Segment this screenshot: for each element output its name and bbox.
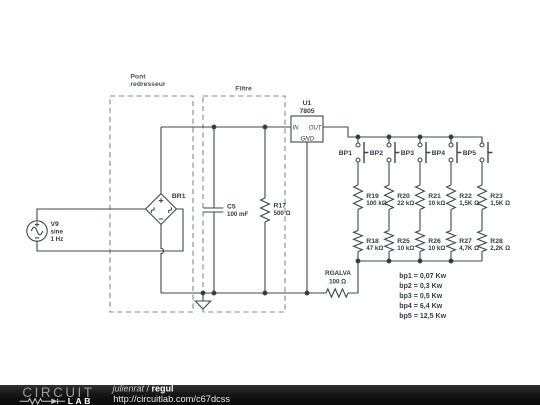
svg-text:1,5K Ω: 1,5K Ω <box>459 200 479 207</box>
wire: R27 to bottom rail <box>450 252 452 262</box>
resistor R25 <box>385 231 394 252</box>
label R18 47 kΩ <box>366 238 383 252</box>
wire: R20 to R25 <box>388 210 390 231</box>
svg-text:U1: U1 <box>303 100 312 107</box>
bridge rectifier BR1 <box>146 194 177 225</box>
wire: U1 GND to ground rail <box>306 142 308 293</box>
CircuitLab logo: diode triangle <box>51 398 57 404</box>
svg-text:2,2K Ω: 2,2K Ω <box>490 245 510 252</box>
svg-text:http://circuitlab.com/c67dcss: http://circuitlab.com/c67dcss <box>113 393 230 403</box>
resistor R19 <box>354 185 363 209</box>
label R26 10 kΩ <box>428 238 445 252</box>
svg-text:C5: C5 <box>227 204 236 211</box>
svg-text:10 kΩ: 10 kΩ <box>397 245 414 252</box>
wire: BP3 to R21 <box>419 162 421 185</box>
wire: bridge minus down to ground rail <box>161 224 164 293</box>
label R19 100 kΩ <box>366 193 386 207</box>
svg-text:julienrat / regul: julienrat / regul <box>112 385 174 394</box>
wire: BP5 to R23 <box>481 162 483 185</box>
dashed box: Filtre <box>203 96 285 312</box>
note: bp power values <box>399 273 446 320</box>
resistor RGALVA <box>326 289 348 297</box>
resistor R27 <box>447 231 456 252</box>
wire: BP4 to R22 <box>450 162 452 185</box>
svg-text:R21: R21 <box>428 193 441 200</box>
CircuitLab logo: resistor-diode squiggle <box>20 398 65 403</box>
wire: BP1 to R19 <box>357 162 359 185</box>
wire: R22 to R27 <box>450 210 452 231</box>
svg-text:R28: R28 <box>490 238 503 245</box>
svg-text:R17: R17 <box>274 203 287 210</box>
wire: U1 OUT to button rail <box>323 127 482 143</box>
label R21 10 kΩ <box>428 193 445 207</box>
wire: R21 to R26 <box>419 210 421 231</box>
label R25 10 kΩ <box>397 238 414 252</box>
ground <box>195 293 210 309</box>
svg-text:OUT: OUT <box>309 125 323 131</box>
svg-text:47 kΩ: 47 kΩ <box>366 245 383 252</box>
pushbutton BP5 <box>463 137 493 163</box>
label V9 sine 1 Hz <box>51 221 64 243</box>
svg-text:R23: R23 <box>490 193 503 200</box>
wire: R19 to R18 <box>357 210 359 231</box>
wire: R28 to bottom rail <box>481 252 483 262</box>
svg-text:BP2: BP2 <box>370 150 383 157</box>
node: bottom rail junction 2 <box>387 259 391 263</box>
wire: resistor bottom rail <box>358 260 482 262</box>
svg-text:bp2 = 0,3 Kw: bp2 = 0,3 Kw <box>399 283 442 290</box>
svg-text:100 Ω: 100 Ω <box>329 278 346 285</box>
svg-text:R27: R27 <box>459 238 472 245</box>
label R17 500 ohm <box>274 203 291 217</box>
svg-text:1 Hz: 1 Hz <box>51 236 64 243</box>
svg-text:R18: R18 <box>366 238 379 245</box>
node: C5 bottom junction <box>212 291 216 295</box>
voltage source V9 <box>27 221 47 241</box>
wire: R18 to bottom rail <box>357 252 359 262</box>
svg-text:R22: R22 <box>459 193 472 200</box>
svg-text:500 Ω: 500 Ω <box>274 210 291 217</box>
svg-text:RGALVA: RGALVA <box>325 270 351 277</box>
resistor R20 <box>385 185 394 209</box>
wire: V9 plus to bridge AC left <box>37 209 146 221</box>
svg-text:GND: GND <box>301 136 315 142</box>
svg-text:22 kΩ: 22 kΩ <box>397 200 414 207</box>
node: BP4 rail junction <box>449 135 453 139</box>
resistor R22 <box>447 185 456 209</box>
dashed box: Pont redresseur <box>110 96 193 312</box>
node: bottom rail junction 1 <box>356 259 360 263</box>
svg-text:10 kΩ: 10 kΩ <box>428 245 445 252</box>
label RGALVA 100 ohm <box>325 270 351 285</box>
node: BP3 rail junction <box>418 135 422 139</box>
wire: R23 to R28 <box>481 210 483 231</box>
svg-text:bp4 = 6,4 Kw: bp4 = 6,4 Kw <box>399 303 442 310</box>
svg-text:R20: R20 <box>397 193 410 200</box>
resistor R28 <box>478 231 487 252</box>
svg-text:100 mF: 100 mF <box>227 211 249 218</box>
svg-text:BR1: BR1 <box>172 193 186 200</box>
voltage regulator U1 7805 <box>291 116 323 142</box>
resistor R23 <box>478 185 487 209</box>
wire: RGALVA to bottom rail riser <box>348 261 358 293</box>
pushbutton BP1 <box>339 137 369 163</box>
pushbutton BP3 <box>401 137 431 163</box>
label C5 100 mF <box>227 204 249 218</box>
footer bar <box>0 385 540 405</box>
label R22 1,5K Ω <box>459 193 479 207</box>
label U1 7805 <box>299 100 314 115</box>
svg-text:bp1 = 0,07 Kw: bp1 = 0,07 Kw <box>399 273 446 280</box>
svg-text:BP4: BP4 <box>432 150 445 157</box>
label Pont redresseur <box>130 74 165 88</box>
svg-text:bp5 = 12,5 Kw: bp5 = 12,5 Kw <box>399 313 446 320</box>
node: U1 GND junction <box>305 291 309 295</box>
node: bottom rail junction 3 <box>418 259 422 263</box>
resistor R18 <box>354 231 363 252</box>
svg-text:R26: R26 <box>428 238 441 245</box>
node: BP2 rail junction <box>387 135 391 139</box>
label R28 2,2K Ω <box>490 238 510 252</box>
capacitor C5 <box>203 127 223 293</box>
svg-text:10 kΩ: 10 kΩ <box>428 200 445 207</box>
node: R17 bottom junction <box>263 291 267 295</box>
svg-text:bp3 = 0,5 Kw: bp3 = 0,5 Kw <box>399 293 442 300</box>
label R23 1,5K Ω <box>490 193 510 207</box>
svg-text:4,7K Ω: 4,7K Ω <box>459 245 479 252</box>
wire: ground rail <box>161 292 326 294</box>
svg-text:R19: R19 <box>366 193 379 200</box>
svg-text:1,5K Ω: 1,5K Ω <box>490 200 510 207</box>
wire: top rail to U1 IN <box>161 126 291 128</box>
node: BP1 rail junction <box>356 135 360 139</box>
svg-text:IN: IN <box>293 125 300 131</box>
svg-text:sine: sine <box>51 229 64 236</box>
svg-text:BP3: BP3 <box>401 150 414 157</box>
resistor R21 <box>416 185 425 209</box>
svg-text:BP5: BP5 <box>463 150 476 157</box>
wire: BP2 to R20 <box>388 162 390 185</box>
svg-text:Filtre: Filtre <box>235 86 252 93</box>
wire: R26 to bottom rail <box>419 252 421 262</box>
node: C5 top junction <box>212 125 216 129</box>
svg-text:V9: V9 <box>51 221 60 228</box>
resistor R17 <box>261 127 270 293</box>
label R20 22 kΩ <box>397 193 414 207</box>
wire: V9 minus to bridge AC right (hops over bridge minus wire) <box>37 209 183 251</box>
svg-text:R25: R25 <box>397 238 410 245</box>
pin labels IN OUT GND <box>293 125 323 142</box>
svg-text:redresseur: redresseur <box>130 81 165 88</box>
label R27 4,7K Ω <box>459 238 479 252</box>
node: bottom rail junction 4 <box>449 259 453 263</box>
wire: bridge plus up to top rail <box>160 127 162 194</box>
node: R17 top junction <box>263 125 267 129</box>
svg-text:7805: 7805 <box>299 108 314 115</box>
node: ground junction <box>201 291 205 295</box>
svg-text:BP1: BP1 <box>339 150 352 157</box>
pushbutton BP4 <box>432 137 462 163</box>
svg-text:LAB: LAB <box>68 395 93 405</box>
wire: R25 to bottom rail <box>388 252 390 262</box>
resistor R26 <box>416 231 425 252</box>
svg-text:Pont: Pont <box>130 74 146 81</box>
pushbutton BP2 <box>370 137 400 163</box>
